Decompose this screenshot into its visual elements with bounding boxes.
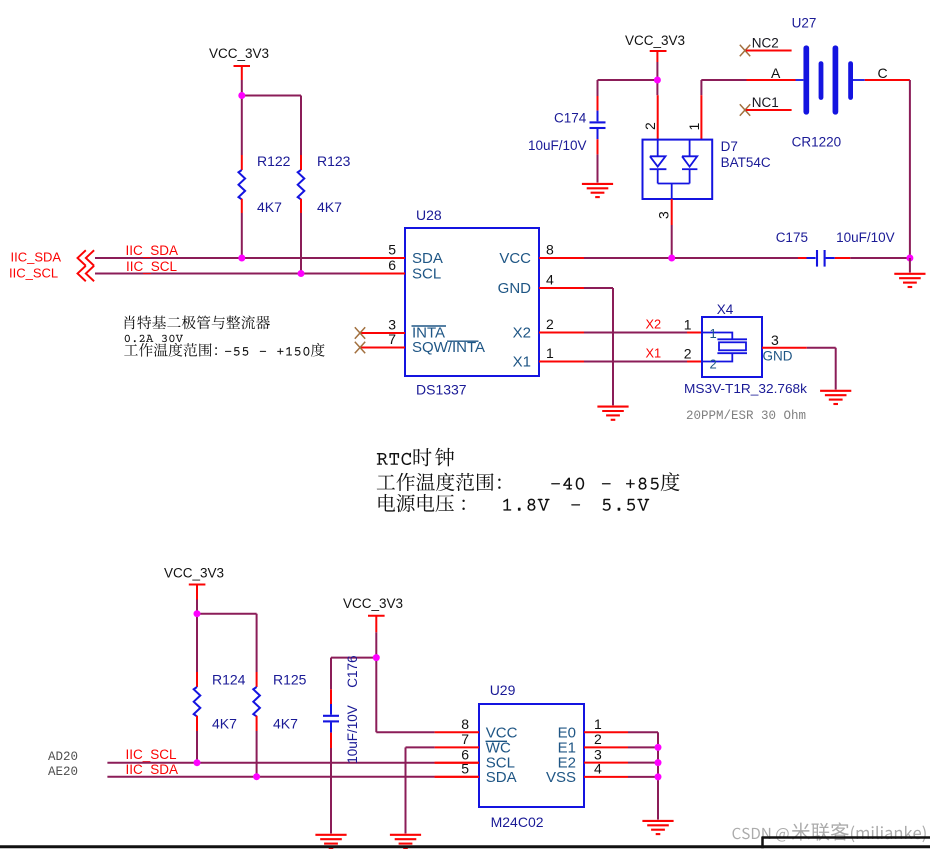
svg-text:4: 4 xyxy=(546,272,554,288)
svg-text:10uF/10V: 10uF/10V xyxy=(345,705,360,764)
svg-text:3: 3 xyxy=(656,211,672,219)
svg-text:X4: X4 xyxy=(717,302,734,317)
svg-text:NC1: NC1 xyxy=(752,95,779,110)
svg-text:4K7: 4K7 xyxy=(273,716,298,732)
svg-text:1: 1 xyxy=(546,345,554,361)
svg-text:2: 2 xyxy=(710,357,717,372)
svg-text:8: 8 xyxy=(546,242,554,258)
svg-text:2: 2 xyxy=(684,346,692,362)
svg-text:IIC_SCL: IIC_SCL xyxy=(9,266,58,281)
svg-text:4: 4 xyxy=(594,761,602,777)
svg-text:SDA: SDA xyxy=(412,250,443,267)
svg-text:GND: GND xyxy=(763,349,793,364)
svg-text:X2: X2 xyxy=(646,317,662,332)
svg-text:7: 7 xyxy=(388,331,396,347)
svg-text:D7: D7 xyxy=(721,139,738,154)
svg-text:GND: GND xyxy=(498,280,532,297)
svg-text:IIC_SDA: IIC_SDA xyxy=(126,762,179,777)
svg-text:MS3V-T1R_32.768k: MS3V-T1R_32.768k xyxy=(684,381,808,396)
svg-text:AE20: AE20 xyxy=(48,765,78,779)
svg-text:X1: X1 xyxy=(513,354,531,371)
svg-text:U27: U27 xyxy=(792,16,817,31)
svg-text:IIC_SDA: IIC_SDA xyxy=(11,250,62,265)
svg-text:CR1220: CR1220 xyxy=(792,135,842,150)
svg-text:IIC_SCL: IIC_SCL xyxy=(126,259,178,274)
svg-text:1: 1 xyxy=(594,716,602,732)
svg-text:4K7: 4K7 xyxy=(212,716,237,732)
svg-text:SCL: SCL xyxy=(412,266,441,283)
svg-text:VSS: VSS xyxy=(546,769,576,786)
svg-text:C: C xyxy=(878,65,888,81)
svg-text:M24C02: M24C02 xyxy=(491,814,544,830)
svg-text:BAT54C: BAT54C xyxy=(721,155,771,170)
svg-text:1: 1 xyxy=(686,123,702,131)
svg-text:4K7: 4K7 xyxy=(317,199,342,215)
svg-text:C175: C175 xyxy=(776,230,808,245)
svg-text:2: 2 xyxy=(594,731,602,747)
svg-text:4K7: 4K7 xyxy=(257,199,282,215)
svg-text:IIC_SDA: IIC_SDA xyxy=(126,243,179,258)
svg-text:1: 1 xyxy=(684,317,692,333)
svg-text:VCC_3V3: VCC_3V3 xyxy=(164,566,224,581)
svg-text:VCC_3V3: VCC_3V3 xyxy=(343,596,403,611)
svg-text:R124: R124 xyxy=(212,672,246,688)
svg-text:R122: R122 xyxy=(257,153,291,169)
svg-text:6: 6 xyxy=(388,257,396,273)
svg-text:5: 5 xyxy=(388,242,396,258)
svg-text:VCC_3V3: VCC_3V3 xyxy=(625,33,685,48)
svg-text:DS1337: DS1337 xyxy=(416,382,467,398)
svg-text:NC2: NC2 xyxy=(752,36,779,51)
svg-text:2: 2 xyxy=(546,316,554,332)
svg-text:C176: C176 xyxy=(345,655,360,687)
svg-text:R125: R125 xyxy=(273,672,307,688)
svg-text:20PPM/ESR 30 Ohm: 20PPM/ESR 30 Ohm xyxy=(686,409,806,423)
svg-text:VCC_3V3: VCC_3V3 xyxy=(209,46,269,61)
svg-text:U28: U28 xyxy=(416,207,442,223)
svg-text:3: 3 xyxy=(771,332,779,348)
svg-text:2: 2 xyxy=(642,122,658,130)
svg-text:IIC_SCL: IIC_SCL xyxy=(126,747,178,762)
svg-text:U29: U29 xyxy=(490,682,516,698)
svg-text:A: A xyxy=(771,65,781,81)
svg-text:C174: C174 xyxy=(554,111,587,126)
svg-text:8: 8 xyxy=(461,716,469,732)
svg-text:10uF/10V: 10uF/10V xyxy=(836,230,895,245)
svg-text:7: 7 xyxy=(461,731,469,747)
svg-text:AD20: AD20 xyxy=(48,750,78,764)
svg-text:1: 1 xyxy=(710,326,717,341)
svg-text:10uF/10V: 10uF/10V xyxy=(528,138,587,153)
svg-text:VCC: VCC xyxy=(499,250,531,267)
svg-text:X2: X2 xyxy=(513,325,531,342)
svg-text:5: 5 xyxy=(461,761,469,777)
svg-text:R123: R123 xyxy=(317,153,351,169)
svg-text:SDA: SDA xyxy=(486,769,517,786)
svg-text:X1: X1 xyxy=(646,346,662,361)
